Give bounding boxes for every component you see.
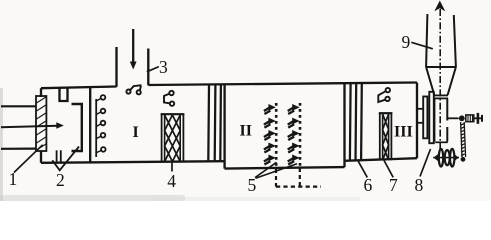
rotary valve discharge xyxy=(433,149,459,167)
stack exhaust arrow xyxy=(434,1,445,12)
stack centerline xyxy=(439,9,441,150)
hook in section III xyxy=(378,88,390,102)
bottom line section III xyxy=(345,158,418,161)
outlet duct to flange xyxy=(418,109,423,123)
lattice partition 7 xyxy=(379,113,393,160)
spray column A arrows xyxy=(264,104,276,165)
leader line 4 xyxy=(171,163,173,172)
leader lines 5 xyxy=(255,162,297,178)
dashed drain header xyxy=(276,186,321,188)
section II lower box bottom xyxy=(225,167,345,169)
svg-text:4: 4 xyxy=(167,171,176,191)
svg-text:7: 7 xyxy=(389,175,398,195)
discharge tube below burner xyxy=(57,150,61,163)
drive gearbox hatched xyxy=(466,115,474,122)
chain curtain circles xyxy=(96,95,105,153)
leader line 3 xyxy=(147,67,159,72)
inner wall left chamber xyxy=(89,86,91,162)
burner air arrow xyxy=(1,122,64,129)
spray column A dotted pipe xyxy=(275,103,278,167)
chain curtain line xyxy=(95,99,97,157)
svg-text:2: 2 xyxy=(56,170,65,190)
hatched burner plate 1 xyxy=(36,96,46,151)
partition wall lines I/II xyxy=(208,84,221,161)
drive arm xyxy=(447,117,458,119)
partition wall lines II/III 6 xyxy=(350,83,362,161)
right wall of body xyxy=(416,83,418,159)
svg-text:I: I xyxy=(133,124,139,141)
lattice partition 4 xyxy=(161,114,185,162)
leader line 6 xyxy=(358,161,367,178)
scan smudge left edge xyxy=(0,88,3,201)
burner nozzle bracket 2 xyxy=(72,104,82,151)
section II right wall xyxy=(343,83,345,167)
svg-text:III: III xyxy=(394,124,413,141)
gas inlet line bottom xyxy=(1,148,36,150)
svg-text:9: 9 xyxy=(402,32,411,52)
svg-text:6: 6 xyxy=(364,175,373,195)
flange plate inner xyxy=(423,97,427,139)
leader line 9 xyxy=(411,42,433,49)
svg-text:1: 1 xyxy=(9,169,18,189)
top notch port xyxy=(60,88,68,101)
svg-text:8: 8 xyxy=(415,175,424,195)
crank handle xyxy=(474,113,482,124)
drive chain xyxy=(461,122,466,157)
svg-text:3: 3 xyxy=(159,57,168,77)
dashed drain leg A xyxy=(275,169,277,187)
flange plate outer xyxy=(429,92,434,143)
svg-text:II: II xyxy=(240,122,252,139)
stack lower tube xyxy=(434,98,447,141)
top inlet left wall xyxy=(115,47,117,87)
bottom line sections I xyxy=(41,161,225,163)
top inlet right wall xyxy=(147,49,149,86)
svg-text:5: 5 xyxy=(248,175,257,195)
main body top line right segment xyxy=(148,83,417,86)
drive sprocket xyxy=(459,115,465,121)
left wall of body lower stub xyxy=(40,151,42,163)
scan smudge bottom edge xyxy=(0,195,185,201)
stack collar xyxy=(434,95,448,98)
spray column B arrows xyxy=(288,104,300,165)
leader line 7 xyxy=(384,160,393,177)
dashed drain leg B xyxy=(299,168,301,187)
leader line 1 xyxy=(14,145,43,173)
hook in section I xyxy=(164,91,174,106)
main body top line left segment xyxy=(41,87,117,89)
stack upper walls 9 xyxy=(426,14,456,67)
stack taper cone xyxy=(426,67,456,95)
rotary valve inlet flange xyxy=(435,141,448,143)
gas inlet line top xyxy=(1,105,36,107)
spray column B dotted pipe xyxy=(299,103,302,167)
stack cone joint line xyxy=(426,66,456,68)
leader lines 2 xyxy=(52,147,79,171)
section II left wall xyxy=(223,84,225,168)
hanging hook pair in inlet xyxy=(126,85,141,94)
feed arrow into top inlet xyxy=(130,29,137,70)
leader line 8 xyxy=(420,149,431,177)
left wall of body upper stub xyxy=(40,88,42,97)
chain end sprocket xyxy=(461,157,466,162)
